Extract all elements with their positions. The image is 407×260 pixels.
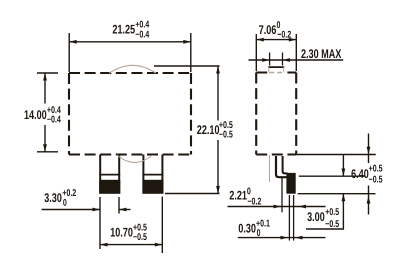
dimension 21.25 +0.4/-0.4 (front width) xyxy=(69,21,191,72)
extension line lead bottom (side) xyxy=(298,193,376,195)
side view lead: gray construction line xyxy=(269,155,271,182)
top dome arc xyxy=(109,65,156,73)
front view body: lead L1 (left) xyxy=(99,155,120,194)
dimension 22.10 +0.5/-0.5 (front total height) xyxy=(154,66,233,194)
front view body: lead L2 (right) xyxy=(142,155,163,194)
dimension 0.30 +0.1/0 (lead thickness) xyxy=(238,195,326,241)
dimension 3.00 +0.5/-0.5 (tip height) xyxy=(306,155,345,230)
side view body outline (dashed rectangle) xyxy=(256,73,296,155)
front view body outline (dashed rectangle) xyxy=(69,73,191,155)
dimension 6.40 +0.5/-0.5 (lead length side) xyxy=(351,134,382,215)
side view black lead tip xyxy=(286,173,295,194)
side view bump on top xyxy=(268,67,284,74)
dimension 3.30 +0.2/0 (lead width) xyxy=(42,189,131,249)
dimension 7.06 0/-0.2 (side width) xyxy=(256,21,296,71)
side view lead outer face with bend xyxy=(276,156,288,177)
dimension 14.00 +0.4/-0.4 (front body height) xyxy=(25,73,61,152)
extension line body bottom (side) xyxy=(296,154,376,156)
dimension 2.30 MAX (bump width) xyxy=(249,49,344,65)
dimension 2.21 0/-0.2 xyxy=(228,178,326,212)
extension line bend top xyxy=(299,175,366,177)
dimension 10.70 +0.5/-0.5 (lead span) xyxy=(100,197,162,254)
side view lead inner face with bend xyxy=(283,156,288,173)
bottom sag arc xyxy=(117,155,153,163)
